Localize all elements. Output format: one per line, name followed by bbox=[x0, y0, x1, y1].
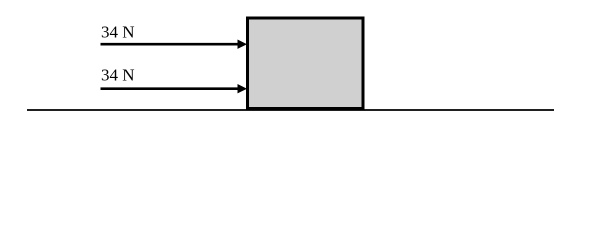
svg-text:34 N: 34 N bbox=[101, 66, 135, 85]
svg-text:34 N: 34 N bbox=[101, 23, 135, 42]
